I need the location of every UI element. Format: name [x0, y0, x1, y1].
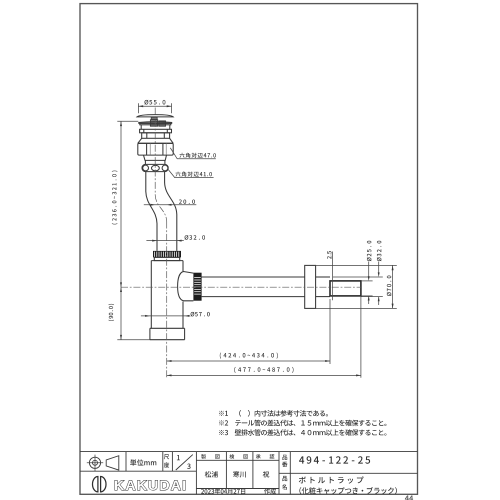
svg-text:KAKUDAI: KAKUDAI	[114, 478, 187, 494]
